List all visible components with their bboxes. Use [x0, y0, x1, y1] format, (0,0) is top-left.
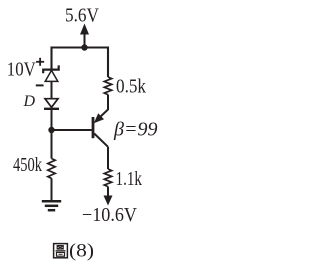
svg-text:450k: 450k [13, 154, 42, 176]
wire: 0.5k to emitter [107, 95, 109, 110]
node: base junction dot [48, 127, 54, 133]
svg-text:10V: 10V [7, 59, 36, 81]
svg-text:(8): (8) [69, 241, 94, 262]
wire: base wire to transistor [52, 129, 92, 131]
svg-text:1.1k: 1.1k [116, 168, 143, 190]
svg-text:−10.6V: −10.6V [82, 204, 137, 226]
svg-text:0.5k: 0.5k [116, 76, 146, 98]
wire: 450k to ground [51, 178, 53, 201]
supply arrow 5.6V [80, 24, 89, 48]
wire: junction down to 450k [51, 130, 53, 159]
svg-text:5.6V: 5.6V [65, 5, 99, 27]
wire: zener to diode D [51, 81, 53, 98]
label + (zener plus) [36, 58, 44, 66]
diode D [44, 99, 59, 109]
label - (zener minus) [36, 84, 44, 86]
resistor 0.5k [104, 77, 111, 95]
wire: collector down to 1.1k [107, 147, 109, 169]
transistor Q1 (PNP) [93, 110, 108, 147]
ground [42, 201, 61, 210]
wire: diode to base junction [51, 109, 53, 130]
node: junction dot on supply rail [81, 44, 87, 50]
resistor 450k [48, 159, 55, 179]
svg-text:D: D [23, 93, 36, 110]
caption: hanzi TU (figure) drawn glyph [54, 244, 68, 258]
svg-text:β=99: β=99 [113, 119, 158, 141]
zener diode (10V) [43, 65, 59, 81]
resistor 1.1k [104, 169, 111, 187]
wire and arrow to -10.6V [104, 187, 113, 206]
wire: top supply rail [52, 48, 109, 78]
